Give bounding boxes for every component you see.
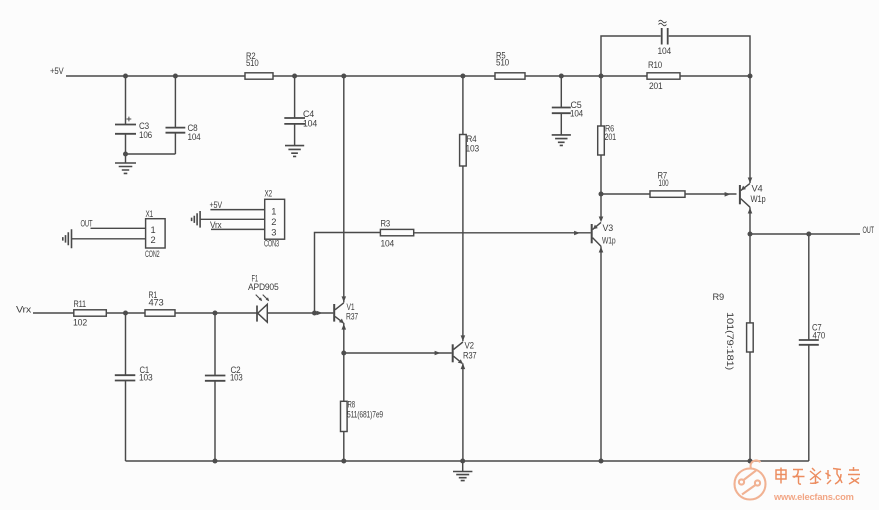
svg-text:R37: R37 — [346, 312, 358, 322]
capacitor C-top 104 — [662, 28, 668, 45]
ground at X2 — [192, 211, 201, 228]
photodiode F1 APD905 — [256, 306, 258, 322]
svg-text:X1: X1 — [146, 209, 154, 219]
svg-text:104: 104 — [658, 46, 672, 56]
resistor R6 — [600, 76, 602, 194]
junction dots on +5V rail — [123, 74, 753, 157]
svg-text:R4: R4 — [467, 134, 477, 144]
ground main — [462, 461, 464, 471]
capacitor C3 — [125, 76, 127, 154]
resistor R9 — [747, 323, 754, 352]
svg-text:Vrx: Vrx — [16, 305, 32, 315]
capacitor C5 — [560, 76, 562, 135]
svg-text:OUT: OUT — [81, 219, 93, 229]
resistor R10 — [647, 73, 680, 79]
transistor V4 W1p — [739, 185, 741, 204]
wire V4 emitter drop — [749, 207, 751, 461]
wire ground rail bottom — [126, 460, 809, 462]
wire V2 emitter — [462, 363, 464, 461]
wire top feedback loop — [601, 36, 750, 76]
junction dots lower — [123, 192, 811, 464]
svg-text:V1: V1 — [347, 302, 355, 312]
wire X1 pin1 — [91, 227, 146, 229]
transistor V1 R37 — [333, 304, 335, 322]
capacitor C8 — [174, 76, 176, 154]
capacitor C2 — [214, 313, 216, 461]
svg-text:R11: R11 — [74, 299, 87, 309]
ground at X1 — [63, 229, 72, 248]
svg-text:510: 510 — [246, 58, 259, 68]
wire +5V rail — [66, 75, 750, 77]
svg-text:103: 103 — [466, 144, 480, 154]
capacitor C4 — [294, 76, 296, 145]
svg-text:V4: V4 — [752, 184, 763, 194]
svg-text:APD905: APD905 — [248, 282, 279, 292]
svg-text:C4: C4 — [303, 109, 314, 119]
resistor R11 — [33, 312, 145, 314]
svg-text:104: 104 — [381, 239, 395, 249]
svg-text:+5V: +5V — [50, 66, 64, 76]
svg-text:103: 103 — [230, 373, 243, 383]
svg-text:V2: V2 — [465, 341, 474, 351]
svg-text:R8: R8 — [348, 400, 356, 410]
svg-text:511(681)7e9: 511(681)7e9 — [347, 410, 383, 420]
wire R3 left drop — [315, 233, 381, 314]
svg-text:+5V: +5V — [210, 200, 223, 210]
connector X2 CON3 — [265, 199, 285, 239]
capacitor C1 — [125, 313, 127, 461]
svg-text:104: 104 — [303, 119, 317, 129]
wire R3 to V3 base — [414, 232, 591, 234]
svg-text:CON2: CON2 — [145, 249, 160, 259]
wire V4 collector top — [749, 76, 751, 183]
wire X2 pin1 — [210, 209, 264, 211]
svg-text:2: 2 — [151, 235, 156, 245]
svg-text:W1p: W1p — [751, 194, 766, 204]
wire OUT line — [750, 233, 860, 235]
wire V3 emitter drop — [600, 246, 602, 461]
svg-text:104: 104 — [188, 132, 201, 142]
svg-text:X2: X2 — [265, 189, 273, 199]
ground under C5 — [552, 135, 571, 146]
svg-text:1: 1 — [151, 225, 156, 235]
resistor R3 — [380, 229, 413, 235]
svg-text:V3: V3 — [603, 223, 614, 233]
resistor R4 — [462, 76, 464, 341]
connector X1 CON2 — [146, 219, 166, 248]
svg-text:102: 102 — [73, 318, 87, 328]
wire V1 collector drop — [343, 76, 345, 303]
svg-text:R3: R3 — [381, 219, 391, 229]
transistor V3 W1p — [591, 224, 593, 243]
svg-text:www.elecfans.com: www.elecfans.com — [773, 492, 854, 502]
svg-text:100: 100 — [659, 178, 669, 188]
svg-text:Vrx: Vrx — [210, 220, 222, 230]
watermark text 电子发烧友 — [776, 467, 860, 484]
svg-text:106: 106 — [139, 130, 152, 140]
svg-text:1: 1 — [271, 207, 276, 217]
wire V1 emitter to V2 base — [344, 352, 452, 354]
resistor R8 — [341, 401, 348, 431]
capacitor C7 — [808, 234, 810, 461]
wire F1 to V1 base — [268, 312, 334, 314]
svg-text:201: 201 — [605, 132, 617, 142]
resistor R2 — [245, 73, 273, 79]
resistor R5 — [495, 73, 525, 79]
resistor R1 — [175, 312, 257, 314]
wire C3-C8 bottom link — [126, 153, 176, 155]
wire X2 pin3 — [211, 228, 265, 230]
svg-text:510: 510 — [496, 58, 509, 68]
svg-text:473: 473 — [149, 297, 164, 307]
ground under C4 — [285, 146, 304, 157]
watermark logo circle — [735, 460, 766, 499]
wire X1 pin2 — [72, 238, 146, 240]
svg-text:R10: R10 — [648, 60, 662, 70]
svg-text:R37: R37 — [463, 351, 477, 361]
wire X2 pin2 — [200, 218, 265, 220]
transistor V2 R37 — [452, 344, 454, 362]
svg-text:470: 470 — [813, 331, 826, 341]
svg-text:OUT: OUT — [863, 225, 875, 235]
svg-text:101(79:181): 101(79:181) — [725, 312, 735, 370]
svg-text:201: 201 — [649, 81, 663, 91]
svg-text:103: 103 — [139, 373, 153, 383]
svg-text:3: 3 — [271, 227, 276, 237]
svg-text:CON3: CON3 — [264, 239, 279, 249]
junction and wire R6-R7-V3 — [600, 194, 602, 218]
wire V1 emitter chain — [343, 323, 345, 461]
ground under C3 — [125, 154, 127, 163]
svg-text:104: 104 — [570, 109, 583, 119]
svg-text:2: 2 — [271, 217, 276, 227]
svg-text:W1p: W1p — [602, 236, 616, 246]
svg-text:R9: R9 — [713, 292, 725, 302]
resistor R7 — [601, 193, 737, 195]
